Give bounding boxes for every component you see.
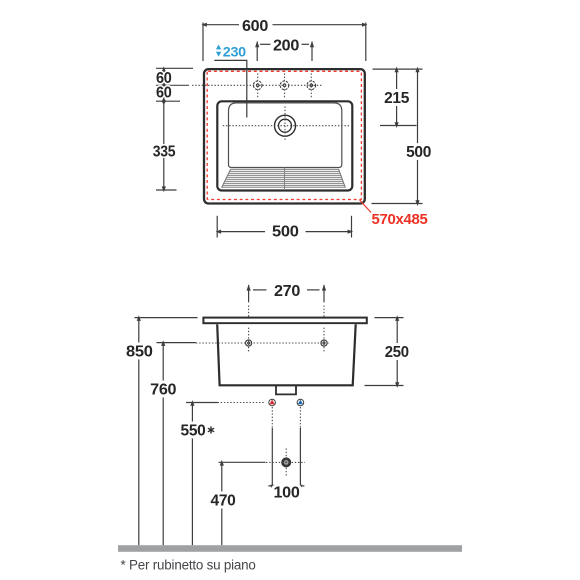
tap hole centrelines (top view): [192, 73, 322, 97]
dimension 270: [249, 285, 324, 302]
left chain dimensions 60 / 60 / 335: [156, 68, 193, 190]
countertop outline (top view): [204, 69, 365, 203]
dimension 100 (feed lines): [272, 407, 300, 428]
waste outlet centrelines: [266, 449, 305, 478]
dimension 600: [203, 23, 366, 62]
dimension 760: [157, 343, 197, 546]
svg-text:230: 230: [223, 44, 247, 60]
svg-text:100: 100: [274, 485, 300, 502]
svg-text:270: 270: [274, 283, 300, 300]
svg-text:850: 850: [126, 344, 153, 361]
svg-text:500: 500: [272, 224, 299, 241]
dimension 850: [135, 318, 198, 546]
asterisk for 550: [208, 426, 214, 433]
dimension 500 (bottom, basin width): [217, 216, 351, 238]
svg-text:200: 200: [273, 38, 299, 55]
tap hole centrelines (front view): [196, 306, 330, 353]
waste outlet dot (front view): [281, 457, 291, 467]
svg-text:335: 335: [153, 143, 176, 160]
svg-text:500: 500: [406, 144, 431, 161]
dimension 550 with asterisk: [186, 403, 218, 546]
svg-text:760: 760: [150, 382, 176, 399]
dimension 470: [219, 462, 266, 545]
drain box (front view): [276, 385, 296, 394]
drain centrelines (top view): [223, 107, 349, 142]
ribbed ramp (top view): [218, 169, 348, 187]
red dashed cut-out 570x485: [207, 71, 361, 199]
dimension 215: [380, 69, 417, 125]
svg-text:250: 250: [385, 344, 409, 361]
basin body (front view): [217, 324, 356, 385]
svg-text:550: 550: [181, 422, 206, 439]
waste drain (top view): [275, 115, 296, 136]
tap holes (top view): [253, 81, 315, 90]
basin outer contour (top view): [217, 101, 352, 190]
floor bar: [118, 545, 462, 552]
dimension 200: [257, 42, 312, 61]
svg-text:* Per rubinetto su piano: * Per rubinetto su piano: [121, 557, 256, 572]
svg-text:215: 215: [384, 90, 410, 107]
hot water point (red): [269, 399, 276, 406]
tap height callout 230: [216, 45, 221, 57]
svg-text:60: 60: [156, 84, 172, 101]
cold water point (blue): [297, 399, 304, 406]
tap holes (front view): [246, 340, 328, 346]
dimension 500 (right, depth): [372, 69, 423, 203]
svg-text:570x485: 570x485: [372, 211, 428, 228]
rim slab (front view): [203, 318, 366, 324]
label 570x485 with red leader: [360, 200, 372, 213]
leader line for 230: [214, 60, 247, 117]
dimension 250: [365, 318, 404, 386]
svg-text:600: 600: [242, 18, 268, 35]
centre seam (top view): [284, 168, 286, 191]
svg-text:470: 470: [211, 493, 236, 510]
basin inner contour (top view): [229, 103, 342, 168]
tap hole axis solid lead (left): [156, 84, 189, 86]
